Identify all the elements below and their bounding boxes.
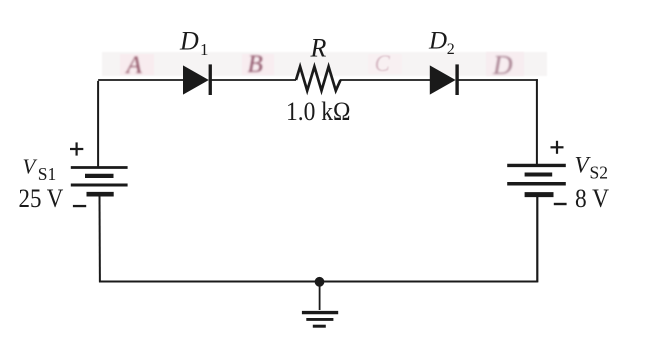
svg-text:25 V: 25 V xyxy=(19,184,64,213)
battery VS2 plate 4 (short thick, -) xyxy=(525,192,554,197)
svg-text:A: A xyxy=(125,52,143,79)
svg-text:D: D xyxy=(428,27,447,54)
svg-text:S1: S1 xyxy=(38,164,56,184)
scan highlight band behind node labels xyxy=(102,52,547,76)
svg-text:D: D xyxy=(492,50,513,80)
wire: bottom horizontal xyxy=(99,281,538,283)
ground symbol bar 3 xyxy=(313,325,326,328)
svg-text:1: 1 xyxy=(200,40,209,59)
wire: left vertical upper (corner to battery +) xyxy=(97,81,99,168)
svg-text:C: C xyxy=(375,51,391,76)
wire: top-left horizontal segment (A to D1) xyxy=(98,79,184,81)
wire: left vertical lower (battery - to bottom wire) xyxy=(99,194,101,282)
ground symbol bar 1 xyxy=(302,311,338,314)
battery VS1 plate 1 (long, +) xyxy=(71,166,128,169)
battery VS2 plate 1 (long, +) xyxy=(507,164,566,167)
junction node dot on bottom wire xyxy=(315,277,325,287)
diode D2 xyxy=(430,64,459,95)
battery VS2 plate 2 (short thick) xyxy=(525,173,553,177)
svg-text:2: 2 xyxy=(447,41,455,58)
battery VS1 plate 4 (short thick, -) xyxy=(87,192,114,197)
wire: right vertical lower (battery - to bottom wire) xyxy=(536,195,538,283)
wire: segment resistor to D2 (node C) xyxy=(340,79,432,81)
resistor R (zigzag) xyxy=(296,67,341,91)
ground symbol bar 2 xyxy=(306,318,333,321)
svg-text:1.0 kΩ: 1.0 kΩ xyxy=(286,97,351,126)
battery VS1 plate 2 (short thick) xyxy=(85,174,114,178)
ground stem wire xyxy=(319,284,321,310)
battery VS2 plate 3 (long) xyxy=(507,182,566,186)
svg-text:V: V xyxy=(23,155,38,179)
svg-text:B: B xyxy=(248,51,263,78)
minus sign left battery xyxy=(73,205,86,207)
plus sign left battery xyxy=(70,142,83,155)
plus sign right battery xyxy=(551,141,564,154)
svg-text:S2: S2 xyxy=(590,163,608,183)
svg-text:8 V: 8 V xyxy=(575,184,609,213)
minus sign right battery xyxy=(554,203,567,205)
wire: right vertical upper (corner to battery +) xyxy=(536,79,538,165)
svg-text:R: R xyxy=(310,34,327,63)
wire: segment D1 to resistor (node B) xyxy=(210,79,296,81)
wire: segment D2 to top-right corner (node D) xyxy=(456,79,538,81)
diode D1 xyxy=(184,64,212,95)
battery VS1 plate 3 (long) xyxy=(71,184,128,187)
svg-text:D: D xyxy=(179,27,199,56)
